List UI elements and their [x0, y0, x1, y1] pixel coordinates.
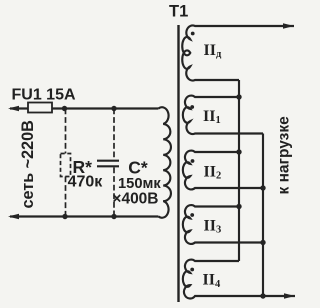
svg-text:T1: T1 — [169, 3, 188, 21]
fuse FU1 — [28, 103, 52, 113]
node R top — [62, 106, 67, 111]
svg-text:к нагрузке: к нагрузке — [275, 116, 292, 195]
capacitor C* plates — [97, 161, 119, 167]
node II3 top — [236, 204, 241, 209]
svg-text:II1: II1 — [203, 108, 221, 126]
node II3 bottom — [260, 240, 265, 245]
svg-text:×400В: ×400В — [112, 191, 158, 208]
arrow mains top — [8, 106, 19, 112]
svg-text:C*: C* — [128, 157, 148, 177]
svg-text:сеть ~220В: сеть ~220В — [19, 120, 37, 208]
winding II2 — [183, 151, 263, 190]
svg-text:II2: II2 — [204, 163, 222, 181]
winding II4 — [183, 260, 295, 299]
svg-text:II4: II4 — [203, 272, 221, 290]
node R bottom — [62, 214, 67, 219]
polarity dot II1 — [190, 105, 194, 109]
svg-text:II3: II3 — [204, 217, 222, 235]
wire bottom mains lead — [10, 215, 159, 217]
node II2 top — [236, 149, 241, 154]
node C top — [111, 106, 116, 111]
polarity dot II4 — [190, 268, 194, 272]
polarity dot IId — [191, 32, 195, 36]
wire R branch dashed — [65, 109, 67, 217]
winding II1 — [183, 96, 263, 134]
node C bottom — [111, 214, 116, 219]
resistor R* dashed box — [61, 154, 71, 177]
arrow mains bottom — [8, 214, 19, 220]
winding IId — [182, 25, 294, 80]
polarity dot II3 — [190, 213, 194, 217]
transformer primary winding — [159, 107, 171, 218]
wire inner bus — [238, 80, 240, 261]
node II1 top — [236, 94, 241, 99]
svg-text:FU1 15A: FU1 15A — [12, 87, 76, 104]
arrow output bottom — [284, 293, 295, 299]
winding II3 — [183, 205, 263, 244]
node II2 bottom — [260, 185, 265, 190]
arrow output top — [283, 23, 294, 29]
wire top mains lead — [10, 107, 159, 109]
wire outer bus — [262, 134, 264, 297]
svg-text:470к: 470к — [68, 173, 104, 190]
polarity dot II2 — [191, 159, 195, 163]
transformer T1 core — [177, 25, 179, 302]
node II4 bottom — [260, 293, 265, 298]
wire C branch dashed — [113, 109, 115, 217]
svg-text:IIд: IIд — [204, 42, 222, 60]
